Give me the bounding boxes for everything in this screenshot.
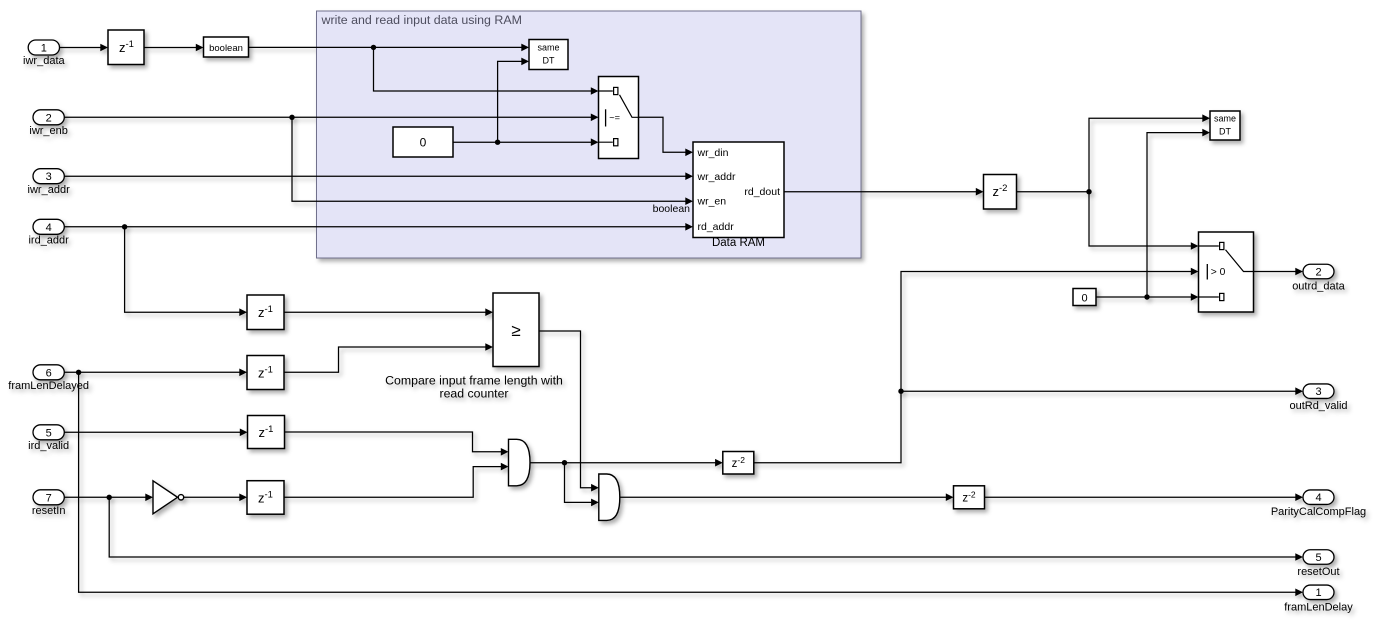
svg-text:wr_addr: wr_addr: [697, 171, 736, 183]
svg-text:5: 5: [1315, 552, 1321, 564]
svg-text:0: 0: [420, 136, 427, 150]
svg-text:resetIn: resetIn: [32, 505, 66, 517]
svg-text:iwr_addr: iwr_addr: [28, 184, 71, 196]
svg-text:6: 6: [46, 367, 52, 379]
svg-text:4: 4: [46, 222, 52, 234]
svg-text:iwr_data: iwr_data: [23, 55, 65, 67]
svg-text:3: 3: [1315, 386, 1321, 398]
svg-text:outrd_data: outrd_data: [1292, 281, 1345, 293]
svg-text:4: 4: [1315, 492, 1321, 504]
svg-text:1: 1: [41, 43, 47, 55]
svg-text:wr_din: wr_din: [697, 147, 729, 159]
svg-text:~=: ~=: [609, 112, 620, 122]
svg-text:iwr_enb: iwr_enb: [29, 125, 68, 137]
svg-text:5: 5: [46, 427, 52, 439]
svg-text:DT: DT: [543, 55, 555, 65]
svg-text:ird_addr: ird_addr: [28, 234, 69, 246]
svg-text:≥: ≥: [511, 321, 520, 340]
svg-text:ParityCalCompFlag: ParityCalCompFlag: [1271, 506, 1366, 518]
svg-text:2: 2: [46, 112, 52, 124]
svg-text:same: same: [537, 42, 559, 52]
svg-text:rd_addr: rd_addr: [698, 221, 735, 233]
svg-text:framLenDelayed: framLenDelayed: [8, 380, 89, 392]
svg-text:framLenDelay: framLenDelay: [1284, 601, 1353, 613]
svg-text:0: 0: [1081, 293, 1087, 305]
svg-text:3: 3: [46, 171, 52, 183]
svg-text:boolean: boolean: [209, 43, 243, 54]
svg-text:2: 2: [1315, 266, 1321, 278]
svg-text:write and read input data usin: write and read input data using RAM: [321, 13, 522, 27]
svg-text:rd_dout: rd_dout: [744, 186, 780, 198]
svg-text:outRd_valid: outRd_valid: [1289, 400, 1347, 412]
svg-text:> 0: > 0: [1211, 267, 1226, 278]
svg-text:ird_valid: ird_valid: [28, 440, 69, 452]
svg-text:Data RAM: Data RAM: [712, 237, 765, 249]
svg-text:read counter: read counter: [439, 387, 508, 401]
svg-text:same: same: [1214, 113, 1236, 123]
svg-text:boolean: boolean: [653, 203, 691, 215]
svg-text:7: 7: [46, 492, 52, 504]
svg-text:DT: DT: [1219, 126, 1231, 136]
svg-text:1: 1: [1315, 587, 1321, 599]
svg-text:resetOut: resetOut: [1297, 566, 1339, 578]
svg-text:wr_en: wr_en: [697, 196, 727, 208]
